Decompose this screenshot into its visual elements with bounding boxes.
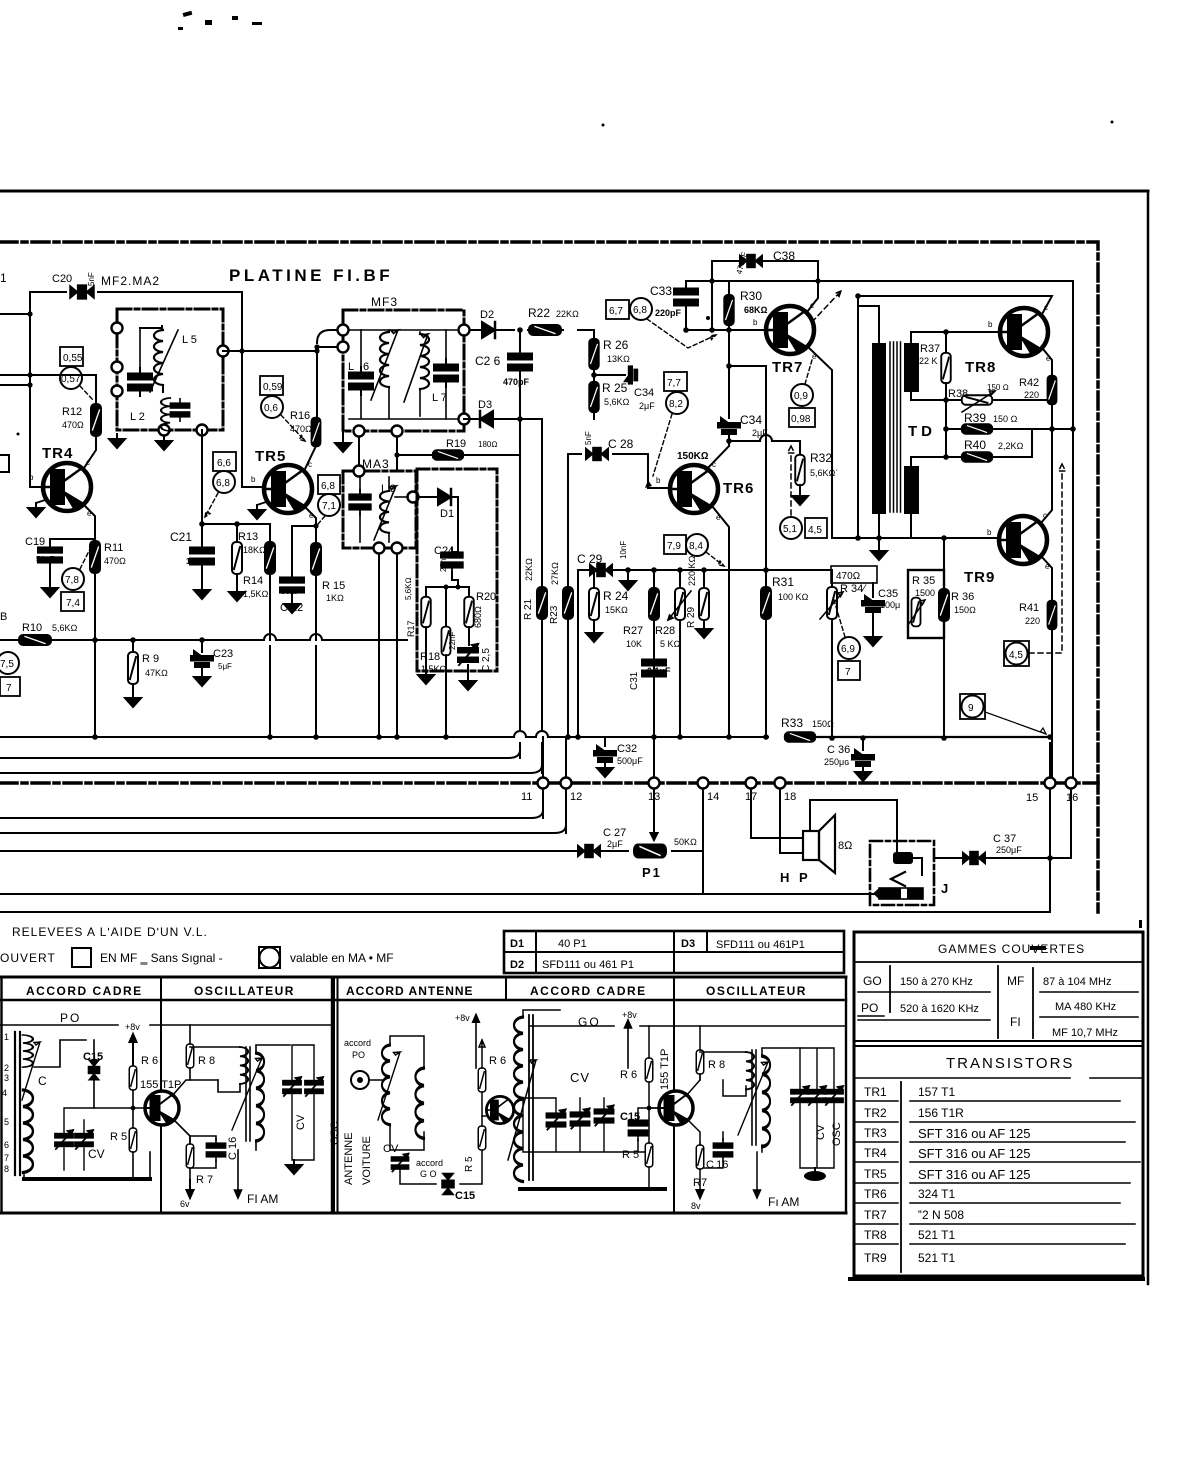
svg-text:0,98: 0,98 [791, 414, 811, 425]
svg-text:C15: C15 [83, 1051, 103, 1063]
wire y441 to R32 [729, 441, 800, 455]
osc GO secondary [762, 1056, 770, 1147]
feedback line y773 [0, 743, 542, 773]
svg-text:b: b [29, 473, 34, 482]
svg-text:R 34∕: R 34∕ [840, 583, 867, 595]
resistor R17 [425, 587, 427, 598]
wire x594 down to R26 [593, 330, 595, 339]
TD secondary top [904, 343, 919, 392]
tr col divider [900, 1082, 902, 1272]
svg-text:FI: FI [1010, 1015, 1021, 1029]
diode D2 [482, 322, 495, 338]
capacitor C31 [653, 650, 655, 656]
capacitor C32 [604, 737, 606, 746]
svg-text:b: b [251, 475, 256, 484]
svg-text:12: 12 [570, 791, 582, 803]
ground under C35 [865, 632, 881, 646]
svg-text:c: c [308, 460, 312, 469]
wire MF2 bottom to C21 [201, 430, 203, 524]
resistor R22 [529, 325, 561, 335]
hop over R14 line [264, 634, 276, 640]
svg-text:TR8: TR8 [864, 1228, 887, 1242]
svg-text:R 25: R 25 [602, 381, 628, 395]
svg-text:18KΩ: 18KΩ [243, 545, 266, 555]
page border right [1147, 191, 1150, 1284]
diode D1 [419, 496, 436, 498]
capacitor C23 [201, 640, 203, 652]
svg-text:L 2: L 2 [130, 411, 145, 423]
svg-text:R 35: R 35 [912, 575, 935, 587]
resistor R21 [537, 587, 547, 619]
node 15 [1049, 743, 1051, 858]
title underline [854, 961, 1143, 963]
line y833 to node12 [0, 790, 566, 833]
speaker HP [803, 831, 819, 860]
GO transformer coil [514, 1017, 523, 1098]
ground under C19 [42, 583, 58, 597]
svg-text:C33: C33 [650, 284, 672, 298]
coil L6 [388, 330, 390, 332]
svg-text:150Ω: 150Ω [954, 605, 976, 615]
bus junction dots [92, 734, 1053, 741]
gammes bottom double line [854, 1041, 1143, 1046]
wire y640 bus [0, 639, 407, 641]
svg-text:3: 3 [4, 1073, 9, 1083]
wire left stub y385 [0, 384, 30, 386]
ground under R9 [125, 693, 141, 707]
svg-text:5,6KΩʾ: 5,6KΩʾ [810, 468, 838, 478]
wire y587 inside box [426, 586, 469, 588]
svg-text:R41: R41 [1019, 602, 1039, 614]
resistor R38 adjustable [962, 395, 992, 405]
ground at TR4 [28, 503, 44, 517]
box 9 with circle [960, 694, 985, 719]
wire D2 output y330 [470, 329, 594, 331]
header divider 2 [673, 977, 675, 1213]
resistor R9 [132, 640, 134, 654]
resistor R7 GO [696, 1145, 704, 1169]
wire y538 rail to TR9 base [832, 537, 999, 539]
svg-text:4,5: 4,5 [808, 525, 822, 536]
L7 arrow [404, 334, 428, 402]
svg-text:TR6: TR6 [864, 1187, 887, 1201]
junction R24 top [591, 567, 597, 573]
wire R25 to y419 [593, 412, 595, 419]
TR6 base arrow [645, 480, 652, 488]
capacitor C15 [88, 1060, 99, 1080]
dashed pointer 6,9 to R34 [834, 600, 845, 637]
wire left stub y314 [0, 313, 30, 315]
svg-text:6v: 6v [180, 1199, 190, 1209]
wire x946 connecting R39 R40 left [945, 400, 947, 457]
svg-text:50nF: 50nF [281, 587, 300, 596]
node 12 [561, 778, 572, 789]
junctions on y570 [651, 567, 769, 573]
wire J to C37 [934, 857, 1071, 859]
svg-text:TR4: TR4 [864, 1146, 887, 1160]
ground under C22 [284, 599, 300, 613]
circle 0,9 [791, 384, 813, 406]
svg-text:14: 14 [707, 791, 719, 803]
TD primary bottom to ground rail y538 [878, 514, 880, 538]
svg-text:50nF: 50nF [36, 555, 55, 564]
svg-text:7: 7 [845, 667, 851, 678]
GO rail [530, 1025, 846, 1027]
box 7,4 [61, 592, 84, 611]
resistor R7 [186, 1144, 194, 1168]
svg-text:C: C [38, 1074, 47, 1088]
capacitor C25 variable [458, 644, 478, 665]
svg-text:500μF: 500μF [617, 756, 643, 766]
FI AM arrow [235, 1150, 242, 1198]
wire y524 C21 R13 R14 [202, 523, 270, 525]
collector wire up right [172, 1080, 218, 1096]
svg-text:C 16: C 16 [706, 1159, 728, 1171]
svg-text:D1: D1 [510, 938, 524, 950]
transistor TR6 [670, 465, 718, 513]
svg-text:TR8: TR8 [965, 359, 996, 376]
capacitor C21 [201, 524, 203, 547]
svg-text:EN MF ‗ Sans Sıgnal -: EN MF ‗ Sans Sıgnal - [100, 951, 223, 965]
6v arrow [187, 1180, 194, 1198]
dashed pointer 0,9 to TR7 e [805, 360, 812, 384]
ground under C25 [460, 676, 476, 690]
svg-text:C 28: C 28 [608, 437, 634, 451]
svg-text:CV: CV [295, 1114, 307, 1130]
svg-text:521 T1: 521 T1 [918, 1228, 955, 1242]
capacitor in MF2 [128, 368, 152, 396]
osc transformer PO core [246, 1047, 250, 1141]
osc GO transformer primary [746, 1052, 754, 1089]
MF2.MA2 box [117, 309, 223, 430]
svg-text:6,8: 6,8 [633, 305, 647, 316]
winding numbers [2, 1032, 9, 1174]
svg-text:TR6: TR6 [723, 480, 754, 497]
svg-text:+8v: +8v [455, 1013, 470, 1023]
svg-text:C 2,5: C 2,5 [481, 648, 492, 672]
circle 6,8 [630, 298, 652, 320]
wire y526 emitter node [292, 525, 316, 527]
ground at TR5 [249, 505, 265, 519]
svg-text:D1: D1 [440, 508, 454, 520]
wire R14 down through y640 to bus [269, 574, 271, 737]
box 7 [0, 677, 20, 696]
svg-text:R 36: R 36 [951, 591, 974, 603]
MA3 box [343, 471, 416, 548]
TR9 emitter wire [1041, 556, 1052, 601]
svg-text:18: 18 [784, 791, 796, 803]
line y818 to node11 [0, 790, 543, 818]
wire vertical x30 to TR4 base [30, 292, 42, 487]
dashed pointer 7,8 to R11 [80, 545, 92, 569]
svg-text:470Ω: 470Ω [104, 556, 126, 566]
resistor R15 [315, 526, 317, 543]
L6 arrow [371, 330, 398, 400]
resistor R11 [90, 541, 100, 573]
svg-text:SFD111 ou 461P1: SFD111 ou 461P1 [716, 939, 805, 951]
capacitor C27 [578, 845, 600, 858]
svg-text:180Ω: 180Ω [478, 440, 498, 449]
box 7 [838, 661, 860, 680]
svg-text:5,6KΩ: 5,6KΩ [604, 397, 630, 407]
svg-text:valable en MA • MF: valable en MA • MF [290, 951, 394, 965]
resistor R32 [795, 455, 805, 485]
svg-text:150 Ω: 150 Ω [993, 414, 1018, 424]
capacitor in MF3 right [445, 330, 447, 364]
svg-text:R38: R38 [948, 388, 968, 400]
circle 7,5 [0, 652, 19, 674]
svg-text:OSCILLATEUR: OSCILLATEUR [706, 984, 807, 998]
antenna wires [369, 1036, 424, 1150]
capacitor C16 GO [713, 1139, 732, 1161]
svg-text:22KΩ: 22KΩ [524, 558, 534, 581]
svg-text:50KΩ: 50KΩ [674, 837, 697, 847]
svg-text:100 KΩ: 100 KΩ [778, 592, 809, 602]
TD primary top elbow [858, 306, 879, 343]
svg-text:ACCORD CADRE: ACCORD CADRE [530, 984, 647, 998]
svg-text:0,9: 0,9 [794, 391, 808, 402]
node 18 [780, 790, 803, 853]
transistor TR4 [43, 463, 91, 511]
svg-text:1: 1 [0, 271, 7, 285]
svg-text:680Ω: 680Ω [473, 606, 483, 628]
R5 wires [132, 1108, 134, 1179]
capacitor C16 [206, 1139, 225, 1161]
legend square symbol [72, 948, 91, 967]
wire y366 to R31 [729, 366, 766, 587]
box 7,9 [664, 535, 686, 554]
svg-text:D2: D2 [510, 959, 524, 971]
svg-text:R 29: R 29 [686, 606, 697, 628]
svg-text:R 5: R 5 [464, 1156, 475, 1172]
bus y737 [0, 736, 768, 738]
capacitor C20 [70, 285, 94, 299]
resistor R5 [129, 1128, 137, 1152]
resistor R27 [653, 570, 655, 588]
svg-text:8,2: 8,2 [669, 399, 683, 410]
svg-text:GAMMES COUVERTES: GAMMES COUVERTES [938, 942, 1085, 956]
svg-text:R11: R11 [104, 542, 123, 554]
transistor TR7 [766, 306, 814, 354]
ground osc GO [804, 1168, 826, 1181]
resistor R39 [962, 424, 992, 434]
svg-text:7,4: 7,4 [66, 598, 80, 609]
right panel top border [334, 976, 846, 979]
jack contacts [896, 843, 898, 852]
ground under TD [878, 538, 880, 546]
line under GO [858, 991, 990, 993]
svg-text:PO: PO [60, 1011, 81, 1025]
MF3 left terminal stubs [317, 330, 343, 347]
ground under R29 [696, 624, 712, 638]
transistor TR5 [264, 465, 312, 513]
pointer 9 to bus [985, 712, 1046, 734]
wire y282 top rail corner to TR8 collector handled; TR8 base wire y332 [911, 332, 1000, 343]
box 0,55 [60, 347, 83, 366]
resistor R13 [236, 524, 238, 542]
junction dots y640 [92, 637, 205, 643]
svg-text:R 5: R 5 [622, 1149, 639, 1161]
antenna coil arrow [378, 1052, 400, 1120]
ground under R24 [586, 628, 602, 642]
C38 loop wires [712, 261, 818, 330]
svg-text:C34: C34 [740, 413, 762, 427]
MF2 terminal circles [112, 323, 229, 436]
TR7 emitter wire [808, 347, 832, 538]
svg-text:6: 6 [4, 1140, 9, 1150]
ground under MF3 [342, 431, 344, 438]
svg-text:1,5KΩ: 1,5KΩ [243, 589, 269, 599]
svg-text:0,6: 0,6 [264, 403, 278, 414]
capacitor C24 [441, 547, 463, 572]
jack plug [873, 888, 923, 899]
svg-text:MA 480 KHz: MA 480 KHz [1055, 1001, 1116, 1013]
box 6,7 [606, 300, 629, 319]
resistor R16 [312, 418, 321, 447]
L3 arrow [374, 486, 396, 540]
svg-text:C23: C23 [213, 648, 233, 660]
resistor R42 [1048, 376, 1057, 405]
svg-text:SFD111 ou 461 P1: SFD111 ou 461 P1 [542, 959, 634, 971]
dashed arrow from 5,1 up [788, 446, 795, 515]
svg-text:R33: R33 [781, 716, 803, 730]
dashed pointer to C21 node [205, 493, 218, 517]
svg-text:C2 6: C2 6 [475, 354, 501, 368]
circle 8,4 [686, 534, 708, 556]
svg-text:b: b [753, 318, 758, 327]
transistors title underline [854, 1077, 1143, 1079]
wire y419 D3 [464, 418, 542, 420]
svg-text:R28: R28 [655, 625, 675, 637]
dashed pointer to R12 [80, 386, 93, 400]
svg-text:6,8: 6,8 [216, 478, 230, 489]
capacitor C37 [963, 852, 985, 865]
GO coil arrow [508, 1060, 536, 1160]
svg-text:520 à 1620 KHz: 520 à 1620 KHz [900, 1003, 979, 1015]
svg-text:0,1μF: 0,1μF [647, 666, 671, 676]
osc GO arrow [738, 1062, 768, 1135]
svg-text:PO: PO [861, 1001, 878, 1015]
platine dash-dot frame top+right [0, 242, 1098, 912]
ground under C32 [597, 763, 613, 777]
svg-text:6,7: 6,7 [609, 306, 623, 317]
transistor TR8 [1000, 308, 1048, 356]
wire y351 to R16 top [316, 351, 318, 417]
wire C19 to R11 y539 [50, 538, 95, 540]
svg-text:b: b [988, 320, 993, 329]
svg-text:FI AM: FI AM [247, 1192, 278, 1206]
svg-text:156 T1R: 156 T1R [918, 1106, 964, 1120]
svg-text:CV: CV [570, 1070, 590, 1085]
capacitor at L2 [170, 399, 189, 421]
capacitor C29 [590, 564, 612, 577]
svg-text:c: c [86, 458, 90, 467]
svg-text:R42: R42 [1019, 377, 1039, 389]
svg-text:100μ: 100μ [880, 600, 900, 610]
svg-text:TR5: TR5 [864, 1167, 887, 1181]
svg-text:7,8: 7,8 [65, 575, 79, 586]
bottom return wire [24, 1177, 150, 1181]
svg-text:MF2.MA2: MF2.MA2 [101, 274, 160, 288]
svg-text:R 8: R 8 [198, 1055, 215, 1067]
capacitor C19 [49, 539, 51, 547]
capacitor C15 GO [628, 1115, 647, 1140]
svg-text:10K: 10K [626, 639, 642, 649]
coil L2 [161, 398, 170, 431]
resistor R36 [943, 538, 945, 590]
HP top wire to J [810, 800, 897, 843]
svg-text:155 T1P: 155 T1P [140, 1079, 181, 1091]
capacitor C22 [291, 526, 293, 576]
rod coil lower [23, 1090, 33, 1173]
svg-text:6: 6 [363, 361, 369, 373]
svg-text:R14: R14 [243, 575, 263, 587]
circle 0,57 [60, 367, 82, 389]
svg-text:TR7: TR7 [864, 1208, 887, 1222]
svg-text:C31: C31 [629, 671, 640, 690]
svg-text:5μF: 5μF [218, 662, 232, 671]
svg-text:CV: CV [815, 1124, 827, 1140]
dash-dot ground bus y783 [0, 781, 1098, 785]
svg-text:SFT 316 ou AF 125: SFT 316 ou AF 125 [918, 1146, 1031, 1161]
T1P GO collector [686, 1050, 700, 1096]
osc GO core [752, 1050, 756, 1145]
box 6,8 right of TR5 [318, 475, 340, 494]
svg-text:8,4: 8,4 [689, 541, 703, 552]
svg-text:D3: D3 [681, 938, 695, 950]
svg-text:17: 17 [745, 791, 757, 803]
left panel header underline [0, 999, 332, 1001]
resistor R10 [19, 635, 51, 645]
resistor R25 [589, 382, 599, 412]
wire y296 to TR8 [858, 296, 1052, 316]
svg-text:J: J [941, 881, 948, 896]
capacitor C36 [862, 738, 864, 750]
transformer TD primary [872, 343, 886, 514]
svg-text:GO: GO [863, 974, 882, 988]
svg-text:R27: R27 [623, 625, 643, 637]
node verticals 11 12 [543, 737, 566, 833]
svg-text:R 6: R 6 [141, 1055, 158, 1067]
svg-text:C 29: C 29 [577, 552, 603, 566]
CV GO capacitors [547, 1110, 566, 1130]
ground under MF2 left [109, 434, 125, 448]
svg-text:157 T1: 157 T1 [918, 1085, 955, 1099]
bus hops [514, 731, 548, 737]
svg-text:8Ω: 8Ω [838, 840, 853, 852]
svg-text:PO: PO [352, 1050, 365, 1060]
svg-text:C21: C21 [170, 530, 192, 544]
svg-text:C15: C15 [455, 1190, 475, 1202]
resistor R19 [433, 450, 463, 460]
coil L7 [419, 332, 421, 334]
resistor R18 [445, 587, 447, 628]
header divider [160, 977, 162, 1213]
wire C29 y570 [578, 569, 832, 571]
svg-text:c: c [1043, 511, 1047, 520]
wire R12 feed y375 [0, 375, 96, 404]
circle 6,8 [213, 471, 235, 493]
svg-text:L: L [348, 361, 354, 373]
svg-text:5,6KΩ: 5,6KΩ [52, 623, 78, 633]
svg-text:SFT 316 ou AF 125: SFT 316 ou AF 125 [918, 1167, 1031, 1182]
CV capacitors [55, 1130, 73, 1149]
svg-text:8v: 8v [691, 1201, 701, 1211]
resistor R20 [468, 587, 470, 598]
svg-text:470pF: 470pF [503, 377, 530, 387]
svg-text:TR5: TR5 [255, 448, 286, 465]
line under MA [1040, 1016, 1138, 1018]
